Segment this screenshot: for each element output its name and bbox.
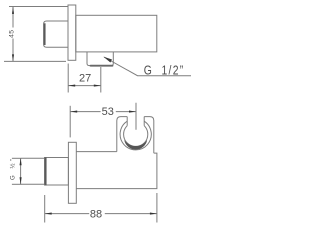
- holder ring dark bottom arc: [124, 140, 147, 150]
- dim G1/2 extension top: [12, 157, 22, 159]
- dimension 45 arrow down: [12, 54, 14, 61]
- svg-text:G 1/2”: G 1/2”: [144, 63, 185, 77]
- svg-text:45: 45: [8, 30, 15, 38]
- dim 53 extension left: [69, 106, 71, 138]
- dim 88 extension left: [44, 195, 46, 223]
- outlet stub (side view): [87, 52, 113, 66]
- holder outer right prong: [144, 117, 154, 154]
- svg-text:53: 53: [102, 106, 114, 118]
- wall block (side view, rounded left corners): [44, 21, 68, 47]
- dimension 45 arrow up: [12, 7, 14, 14]
- outlet dark bottom edge: [91, 65, 113, 67]
- dim G1/2 arrow up: [20, 158, 22, 165]
- leader arrowhead: [103, 57, 112, 63]
- dim 53 arrow left: [70, 111, 77, 113]
- dim 88 arrow right: [150, 213, 157, 215]
- holder ring outer arc: [120, 121, 151, 150]
- flange plate (side view): [68, 5, 76, 60]
- dimension 45 line: [12, 7, 14, 62]
- holder outer left prong: [117, 117, 127, 152]
- dim 27 extension left: [67, 64, 69, 93]
- svg-text:27: 27: [79, 72, 91, 84]
- body (bottom view) outline: [76, 152, 157, 189]
- dim 27 arrow right: [94, 85, 101, 87]
- dimension 88 line: [45, 213, 157, 215]
- wall block (bottom view): [45, 158, 69, 186]
- body (side view): [76, 15, 157, 52]
- dim 27 extension right: [100, 67, 102, 93]
- dimension G1/2 line: [20, 158, 22, 184]
- dim G1/2 extension bottom: [12, 183, 22, 185]
- dim G1/2 arrow down: [20, 177, 22, 184]
- dim 27 arrow left: [68, 85, 75, 87]
- svg-text:88: 88: [90, 209, 102, 221]
- dim 88 arrow left: [45, 213, 52, 215]
- holder centerline (53 dim right reference): [135, 103, 137, 130]
- nipple bottom edge: [21, 183, 44, 185]
- holder slot wall left: [126, 117, 128, 126]
- holder ring inner arc: [124, 126, 148, 147]
- holder slot wall right: [143, 117, 145, 126]
- dimension 53 line: [70, 111, 136, 113]
- dimension 27 line: [68, 85, 101, 87]
- dim 53 arrow right: [129, 111, 136, 113]
- svg-text:G ½”: G ½”: [9, 156, 16, 180]
- leader line to G 1/2: [104, 57, 191, 76]
- wall block dark left edge (bottom view): [45, 157, 47, 185]
- nipple (threaded inlet) top edge: [21, 157, 44, 159]
- flange plate (bottom view): [68, 142, 76, 203]
- wall block dark left edge: [44, 23, 46, 45]
- dim 88 extension right: [156, 193, 158, 223]
- top view: extension line top (45 dim): [9, 6, 68, 8]
- top view: extension line bottom (45 dim): [4, 60, 66, 62]
